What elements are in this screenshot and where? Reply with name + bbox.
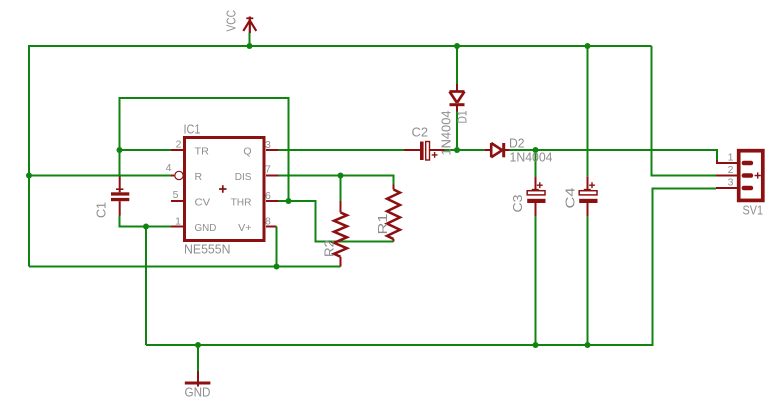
wire V+ drop to VCC bottom branch — [276, 227, 278, 267]
capacitor C3 — [527, 176, 545, 216]
junction V+ / VCC bottom branch — [274, 264, 280, 270]
wire R (reset) pin net — [29, 175, 171, 177]
svg-text:Q: Q — [243, 145, 251, 157]
svg-text:VCC: VCC — [225, 10, 239, 32]
svg-text:NE555N: NE555N — [184, 243, 231, 257]
junction DIS / R2 — [338, 173, 344, 179]
wire C3 top — [535, 150, 537, 176]
svg-text:R: R — [195, 171, 203, 183]
wire D1 bottom to node — [456, 112, 458, 151]
resistor R1 — [387, 185, 400, 242]
svg-text:R2: R2 — [323, 240, 337, 257]
svg-text:1: 1 — [175, 216, 181, 228]
junction THR / link — [286, 198, 292, 204]
op-amp/timer IC1 NE555N body — [185, 138, 265, 241]
svg-text:2: 2 — [176, 139, 182, 151]
junction D2 cathode / C3 — [533, 147, 539, 153]
wire GND symbol tap — [197, 345, 199, 371]
svg-text:2: 2 — [728, 164, 734, 176]
junction GND pin drop — [143, 224, 149, 230]
wire D2 cathode to output node — [510, 149, 536, 151]
wire TR-THR link — [120, 98, 289, 201]
junction C4 top on VCC rail — [585, 43, 591, 49]
wire DIS pin to R1 top — [279, 176, 394, 185]
svg-text:C3: C3 — [511, 194, 525, 212]
svg-text:C1: C1 — [95, 202, 109, 218]
wire C2 to D1/D2 node — [445, 149, 485, 151]
wire TR pin net — [120, 149, 172, 151]
junction D1 bottom on output node — [454, 147, 460, 153]
svg-text:SV1: SV1 — [743, 204, 764, 218]
svg-text:6: 6 — [265, 190, 271, 202]
svg-text:3: 3 — [265, 139, 271, 151]
IC1 pin 4 inversion bubble — [175, 171, 183, 179]
connector SV1 pin pads — [742, 161, 754, 191]
wire VCC net: left rail and top rail — [29, 46, 652, 267]
resistor R2 — [334, 201, 347, 267]
svg-text:1: 1 — [728, 152, 734, 164]
wire C3 bottom — [535, 216, 537, 345]
junction C3 bottom on GND rail — [533, 342, 539, 348]
power symbol VCC — [243, 17, 256, 34]
svg-text:GND: GND — [195, 222, 217, 234]
junction D1 top on VCC rail — [454, 43, 460, 49]
svg-text:1N4004: 1N4004 — [440, 110, 454, 155]
diode D2 — [484, 143, 509, 157]
wire D1 top to VCC rail — [456, 46, 458, 84]
IC1 pin stubs right — [266, 150, 279, 227]
svg-text:5: 5 — [173, 189, 179, 201]
svg-text:7: 7 — [265, 164, 271, 176]
wire Q output to C2 — [279, 149, 405, 151]
junction C4 bottom on GND rail — [585, 342, 591, 348]
svg-text:V+: V+ — [238, 222, 251, 234]
wire THR pin to R1 bottom — [279, 201, 394, 242]
capacitor C4 — [579, 176, 597, 216]
wire VCC net: right drop to SV1 pin 2 — [652, 46, 717, 176]
svg-text:C2: C2 — [412, 126, 429, 140]
junction GND symbol tap — [195, 342, 201, 348]
connector SV1 plus mark — [755, 172, 761, 178]
svg-text:DIS: DIS — [235, 171, 252, 183]
wire VCC symbol stem — [249, 33, 251, 46]
junction TR pin / link — [117, 147, 123, 153]
svg-text:4: 4 — [166, 162, 172, 174]
connector SV1 pin stubs — [716, 160, 737, 188]
wire GND bottom rail and SV1 pin 3 run — [146, 189, 716, 346]
wire C4 top from VCC rail — [587, 46, 589, 176]
svg-text:1N4004: 1N4004 — [510, 151, 553, 165]
svg-text:3: 3 — [728, 176, 734, 188]
wire output run to SV1 pin 1 — [536, 150, 718, 160]
IC1 polarity cross — [219, 185, 226, 192]
wire GND pin drop — [145, 227, 147, 346]
wire R2 top drop — [340, 176, 342, 202]
svg-text:D1: D1 — [456, 110, 470, 123]
capacitor C2 — [404, 142, 445, 161]
IC1 pin stubs left — [171, 150, 184, 227]
svg-text:CV: CV — [195, 196, 211, 208]
svg-text:C4: C4 — [564, 187, 578, 208]
svg-text:IC1: IC1 — [184, 123, 201, 137]
svg-text:TR: TR — [195, 145, 210, 157]
junction VCC symbol on rail — [247, 43, 253, 49]
svg-text:THR: THR — [231, 196, 252, 208]
svg-text:D2: D2 — [509, 137, 525, 151]
svg-text:8: 8 — [265, 216, 271, 228]
wire C4 bottom — [587, 216, 589, 345]
ground symbol GND — [185, 371, 211, 387]
connector SV1 body — [739, 151, 763, 201]
svg-text:GND: GND — [185, 386, 211, 400]
wire C1 bottom to GND pin — [120, 216, 172, 227]
wire VCC net: bottom branch to V+ and R2 — [29, 266, 341, 268]
capacitor C1 — [111, 177, 129, 216]
svg-text:R1: R1 — [376, 213, 390, 234]
junction VCC rail / R pin — [26, 173, 32, 179]
diode D1 — [450, 84, 465, 112]
